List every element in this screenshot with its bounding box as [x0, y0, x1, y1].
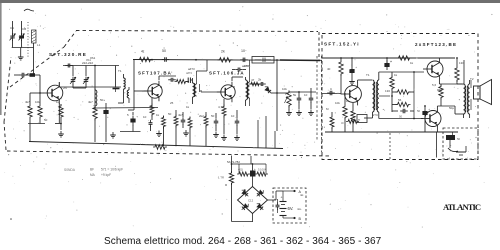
transistor Q5 output upper	[423, 58, 443, 80]
transistor Q1 converter	[43, 82, 63, 104]
transistor type label SFT.320.RE	[49, 52, 86, 57]
earphone jack dashed box	[443, 128, 478, 159]
rail dropping resistor R21	[397, 56, 412, 60]
svg-text:2N: 2N	[63, 86, 67, 90]
transistor Q6 output lower	[421, 108, 441, 130]
bottom ground rail right	[140, 145, 283, 149]
transistor Q3 second IF amplifier	[217, 82, 235, 102]
svg-text:1 TR: 1 TR	[218, 176, 224, 180]
output transformer T5 secondary	[468, 84, 470, 114]
filter resistor R26	[255, 164, 268, 176]
ground symbol C13	[234, 135, 240, 141]
wire Q1 collector to T1	[59, 82, 121, 87]
svg-text:5k: 5k	[293, 93, 297, 97]
bias resistor R20	[392, 96, 411, 112]
svg-text:4k7: 4k7	[25, 100, 30, 104]
svg-text:47: 47	[251, 78, 255, 82]
wire jack to board	[452, 132, 454, 138]
driver transformer T4 core	[375, 82, 377, 110]
wire T5 to speaker	[464, 60, 471, 118]
detector wire	[250, 83, 259, 85]
svg-text:1k: 1k	[186, 105, 190, 109]
chassis boundary dashed bottom edge	[7, 151, 330, 156]
caption schema elettrico	[104, 236, 382, 247]
Q4 emitter bypass label	[341, 121, 344, 125]
wire Q6 collector to T5	[437, 106, 463, 114]
antenna trimmer capacitor CA2	[19, 33, 25, 41]
volume control potentiometer	[277, 91, 291, 111]
svg-text:1k: 1k	[56, 100, 60, 104]
wire oscillator verticals	[73, 66, 86, 89]
svg-text:+: +	[109, 107, 111, 111]
svg-text:2k: 2k	[221, 50, 225, 54]
wire amp to jack dashed	[390, 132, 437, 161]
rail resistor R6	[218, 50, 233, 63]
ground symbol Q3 emitter	[221, 135, 227, 141]
bias resistor R18	[390, 72, 394, 96]
svg-text:B: B	[233, 85, 235, 89]
IF transformer T1 right wire	[128, 60, 134, 110]
svg-text:R: R	[225, 183, 228, 187]
svg-text:+9 kpF: +9 kpF	[101, 173, 111, 177]
IF transformer T1 primary	[118, 74, 125, 103]
capacitor C9	[149, 120, 153, 131]
input capacitor C17	[327, 91, 335, 96]
svg-text:40: 40	[327, 67, 331, 71]
capacitor C10	[181, 112, 186, 128]
resistor labels power	[238, 168, 267, 172]
svg-text:CB: CB	[22, 27, 26, 31]
bridge rectifier D2-D5	[238, 187, 268, 214]
svg-text:4ɪ: 4ɪ	[141, 50, 145, 54]
ground symbol C10	[183, 130, 189, 136]
svg-text:1k: 1k	[156, 113, 160, 117]
sonda note	[64, 168, 123, 178]
capacitor C13	[235, 110, 240, 134]
wire T4 secondary bottom to Q6 base	[379, 112, 423, 119]
svg-text:50: 50	[399, 115, 403, 119]
antenna wire squiggle	[24, 9, 34, 11]
scan top edge bar	[0, 0, 500, 3]
svg-text:MA: MA	[90, 173, 96, 177]
battery terminal A	[283, 190, 302, 194]
wire Q5 collector	[438, 57, 440, 60]
bias resistor R19	[392, 90, 411, 94]
Q4 emitter resistor R16	[351, 103, 355, 132]
svg-text:T1: T1	[118, 69, 122, 73]
earphone jack capacitor	[446, 135, 461, 141]
transistor Q4 driver	[341, 83, 362, 106]
svg-text:S F T . 1 0 6 . J A: S F T . 1 0 6 . J A	[209, 71, 244, 76]
svg-text:25: 25	[170, 101, 174, 105]
svg-text:5A79-782: 5A79-782	[227, 160, 240, 164]
driver transformer T4 secondary	[377, 80, 379, 112]
svg-text:10k: 10k	[35, 100, 40, 104]
svg-text:4,7: 4,7	[218, 105, 223, 109]
bias resistor R2	[38, 93, 42, 124]
AGC resistor R4	[93, 106, 97, 143]
driver transformer T4 primary	[373, 80, 375, 112]
wire detector output	[299, 91, 316, 93]
resistor R24 label	[218, 176, 224, 180]
svg-text:4ɑ: 4ɑ	[300, 193, 304, 197]
tuning gang dotted link	[27, 22, 29, 58]
oscillator coil L2	[95, 88, 97, 106]
svg-text:10: 10	[231, 114, 235, 118]
wire T1 secondary to Q2 base	[134, 90, 148, 92]
emitter resistor R3	[59, 104, 63, 130]
svg-text:10k: 10k	[282, 87, 287, 91]
battery dashed box	[273, 188, 306, 223]
wire bridge right to battery	[268, 191, 284, 200]
bias capacitor C19	[392, 109, 414, 119]
svg-text:2 x S F T 1 2 3 . B E: 2 x S F T 1 2 3 . B E	[415, 42, 456, 47]
svg-text:50: 50	[168, 112, 172, 116]
svg-text:a#73: a#73	[188, 67, 195, 71]
rail thick segment	[280, 59, 320, 62]
svg-text:10: 10	[143, 115, 147, 119]
wire T4 secondary top to Q5 base	[379, 72, 424, 80]
scan left edge bar	[0, 3, 2, 115]
resistor R15b	[330, 112, 334, 132]
filter capacitor C23	[274, 197, 280, 213]
wire R1 top	[30, 93, 40, 100]
resistor R17	[346, 120, 359, 124]
B+ supply rail	[133, 58, 455, 60]
svg-text:50+: 50+	[100, 98, 105, 102]
svg-text:+: +	[254, 167, 256, 171]
earphone jack	[448, 140, 466, 160]
neutralizing capacitor C6	[168, 71, 192, 82]
wire bias node	[409, 72, 414, 119]
svg-text:5,6: 5,6	[432, 83, 437, 87]
battery terminal B	[283, 217, 302, 221]
battery label 6V	[288, 206, 303, 211]
svg-text:T2: T2	[470, 77, 474, 81]
neutralizing capacitor C11	[232, 64, 250, 72]
bias resistor R22	[439, 84, 443, 106]
wire antenna to mixer	[33, 43, 35, 75]
rail resistor R5	[138, 50, 153, 62]
AF line vertical	[276, 60, 278, 131]
volume section dashed vertical pair	[317, 56, 322, 152]
antenna lead-in wires	[13, 21, 22, 35]
speaker	[474, 80, 492, 105]
svg-text:ɑ#73: ɑ#73	[186, 71, 192, 75]
antenna ground	[18, 48, 24, 61]
svg-text:a#73: a#73	[242, 64, 249, 68]
svg-text:50μ: 50μ	[449, 106, 454, 110]
resistor R10b	[188, 117, 192, 147]
svg-text:2k: 2k	[258, 78, 262, 82]
ground symbol Q2 emitter	[156, 131, 162, 137]
wire T2 to Q3 base	[201, 90, 221, 92]
bottom ground rail left	[29, 142, 140, 145]
IF decoupling resistor R7	[175, 80, 190, 84]
amplifier board dashed box	[322, 34, 478, 160]
svg-text:10: 10	[304, 93, 308, 97]
AF coupling capacitor C15	[289, 92, 301, 109]
svg-text:4k7: 4k7	[88, 100, 93, 104]
wire Q5 emitter to output transformer	[439, 80, 462, 84]
svg-text:10k: 10k	[335, 101, 340, 105]
svg-text:+: +	[390, 60, 392, 64]
svg-text:L1: L1	[37, 43, 41, 47]
bypass capacitor C8 electrolytic	[120, 112, 141, 132]
svg-text:0S1: 0S1	[90, 56, 96, 60]
svg-text:Schema elettrico mod. 264 - 26: Schema elettrico mod. 264 - 268 - 361 - …	[104, 236, 382, 247]
emitter resistor R11	[222, 99, 226, 134]
detector resistor R13	[249, 82, 261, 86]
svg-text:40Ω: 40Ω	[238, 168, 243, 172]
wire bridge bottom	[232, 214, 253, 223]
detector diode D1	[265, 87, 271, 93]
decoupling electrolytic C3	[103, 103, 111, 142]
ground C15	[296, 110, 302, 116]
svg-text:CA: CA	[10, 26, 14, 30]
svg-text:2k2: 2k2	[199, 114, 204, 118]
svg-text:ATLANTIC: ATLANTIC	[443, 202, 481, 212]
rail capacitor C4	[162, 49, 170, 62]
brand ATLANTIC	[443, 202, 481, 212]
svg-text:+: +	[281, 196, 283, 200]
antenna section dashed diagonal	[10, 31, 76, 87]
svg-text:ɪ0: ɪ0	[341, 121, 344, 125]
wire diode to volume	[271, 92, 277, 94]
battery B1 6V	[280, 191, 287, 218]
chassis boundary dashed vertical at x=319	[318, 32, 320, 60]
svg-text:+: +	[136, 115, 138, 119]
coupling capacitor C1	[14, 73, 30, 78]
power connector label	[227, 160, 240, 164]
svg-text:130: 130	[459, 61, 464, 65]
svg-text:4k7: 4k7	[178, 113, 183, 117]
supply top wire	[232, 163, 267, 165]
antenna trimmer capacitor CA1	[10, 33, 16, 41]
wire Q1 emitter down	[58, 103, 60, 123]
stray dot	[10, 218, 12, 220]
wire oscillator tank	[95, 66, 116, 109]
wire AGC horizontal	[95, 104, 158, 108]
supply feed wires	[232, 156, 252, 165]
IF transformer T3	[246, 60, 250, 106]
AGC line resistor R10	[174, 110, 178, 146]
svg-text:1k: 1k	[410, 61, 414, 65]
decoupling electrolytic C18	[349, 58, 357, 85]
electrolytic C21 across output	[417, 106, 430, 132]
on-off switch on rail	[252, 57, 274, 64]
ground volume	[286, 110, 292, 116]
transistor Q2 first IF amplifier	[144, 81, 162, 101]
svg-text:ɪɪ: ɪɪ	[358, 118, 360, 122]
base resistor R14	[339, 58, 343, 94]
svg-text:50: 50	[417, 109, 421, 113]
output transformer T5 core	[466, 86, 468, 112]
dropping resistor R24	[229, 164, 233, 222]
wire Q3 collector up	[232, 77, 243, 81]
padder capacitor C2	[30, 73, 36, 77]
capacitor on oscillator wire	[65, 64, 73, 68]
NTC resistor box	[357, 115, 367, 123]
amplifier ground rail	[325, 131, 458, 133]
wire Q2 emitter	[151, 98, 153, 104]
base resistor R15	[343, 93, 347, 132]
svg-text:+: +	[428, 108, 430, 112]
wire T4 primary bottom	[364, 112, 373, 118]
ferrite rod	[32, 30, 37, 43]
svg-text:B: B	[160, 85, 162, 89]
resistor R9	[162, 116, 166, 147]
filter resistor R25	[237, 164, 250, 176]
tank capacitor plate	[113, 89, 120, 93]
feedback resistor R23	[455, 58, 459, 84]
svg-text:10: 10	[241, 49, 245, 53]
output transformer T5 primary	[457, 84, 465, 118]
filter electrolytic C22	[250, 164, 256, 187]
svg-text:1k: 1k	[346, 99, 350, 103]
svg-text:50: 50	[162, 49, 166, 53]
input wire to Q4 base	[322, 93, 341, 95]
component value labels	[10, 26, 474, 197]
svg-text:C12: C12	[248, 199, 254, 203]
svg-text:S F T 1 0 7 . B A: S F T 1 0 7 . B A	[138, 71, 172, 76]
emitter resistor R8	[150, 104, 154, 121]
svg-text:S0NDA: S0NDA	[64, 168, 76, 172]
detector capacitor C14	[258, 82, 266, 86]
ground symbol C12	[213, 132, 219, 138]
svg-text:4ɑʟ: 4ɑʟ	[297, 207, 302, 211]
svg-text:NTC: NTC	[372, 113, 379, 117]
IF transformer T2	[193, 60, 208, 104]
svg-text:C: C	[330, 87, 333, 91]
wire C2 to Q1 base	[35, 75, 44, 93]
wire emitter node	[28, 123, 61, 125]
capacitor C7	[188, 78, 192, 84]
svg-text:+: +	[274, 197, 276, 201]
oscillator trimmer CT1	[70, 77, 76, 85]
svg-text:T1: T1	[366, 73, 370, 77]
svg-text:+: +	[355, 66, 357, 70]
oscillator trimmer CT2	[83, 77, 89, 85]
svg-text:5: 5	[127, 113, 129, 117]
supply electrolytic C20	[384, 58, 392, 70]
svg-text:R52: R52	[437, 88, 443, 92]
bias resistor R1	[28, 100, 32, 142]
thermistor on ground rail	[153, 145, 167, 150]
antenna bottom wire	[12, 40, 34, 48]
transistor type label SFT. 106.JA	[209, 71, 244, 76]
ground at R3	[58, 131, 64, 137]
oscillator top wire	[63, 65, 119, 67]
wire Q2 collector up	[159, 76, 176, 80]
svg-text:ȷ: ȷ	[448, 156, 450, 160]
svg-text:571 = 10/6 kpF: 571 = 10/6 kpF	[101, 168, 123, 172]
detector ground drop wires	[258, 116, 275, 148]
svg-text:5.10VA: 5.10VA	[258, 168, 267, 172]
svg-text:50: 50	[457, 137, 461, 141]
svg-text:1k: 1k	[394, 73, 398, 77]
svg-text:S F T . 3 2 0 . R E: S F T . 3 2 0 . R E	[49, 52, 86, 57]
battery plus mark	[281, 196, 283, 200]
wire T4 center tap	[379, 95, 390, 97]
ground at C3	[110, 132, 116, 138]
svg-text:130: 130	[385, 89, 390, 93]
svg-text:S F T . 1 5 2 . Y I: S F T . 1 5 2 . Y I	[324, 42, 359, 47]
capacitor C12	[214, 113, 219, 131]
svg-text:M: M	[326, 107, 329, 111]
ground C16	[308, 110, 314, 116]
transistor type label SFT.152.YI	[324, 42, 359, 47]
resistor R12	[204, 112, 208, 147]
oscillator coil label	[82, 58, 93, 65]
capacitor C16	[309, 88, 314, 109]
transistor type label 2xSFT 123.BE	[415, 42, 456, 47]
svg-text:B: B	[299, 217, 302, 221]
chassis boundary dashed top edge	[76, 31, 318, 32]
transistor type label SFT 107.BA	[138, 71, 172, 76]
svg-text:50: 50	[211, 114, 215, 118]
chassis boundary dashed left edge	[4, 57, 11, 150]
wire Q4 collector to driver transformer	[358, 80, 372, 83]
svg-text:BF: BF	[90, 168, 94, 172]
wire Q6 emitter to rail	[436, 130, 438, 133]
svg-text:56: 56	[398, 98, 402, 102]
IF transformer T1 secondary	[127, 87, 129, 103]
svg-text:6V.: 6V.	[288, 206, 294, 211]
rail capacitor C5	[240, 49, 248, 62]
